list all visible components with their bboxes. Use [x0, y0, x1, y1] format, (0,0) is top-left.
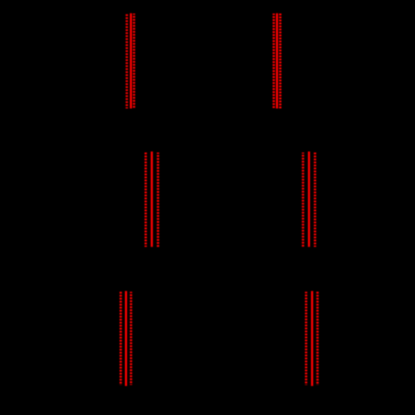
wire W4 (track segment, solid centre line) [308, 152, 310, 247]
W6 right clearance outline (dotted) [316, 292, 318, 385]
W4 right clearance outline (dotted) [314, 153, 316, 247]
wire W3 (track segment, solid centre line) [151, 152, 153, 247]
wire W1 (track segment, solid centre line) [130, 13, 132, 108]
W1 left clearance outline (dotted) [126, 14, 128, 108]
wire W5 (track segment, solid centre line) [125, 291, 127, 386]
W4 left clearance outline (dotted) [302, 153, 304, 247]
W2 right clearance outline (dotted) [279, 14, 281, 109]
W5 right clearance outline (dotted) [130, 292, 132, 385]
wire W6 (track segment, solid centre line) [311, 291, 313, 386]
W3 left clearance outline (dotted) [145, 153, 147, 247]
W3 right clearance outline (dotted) [157, 153, 159, 247]
W2 left clearance outline (dotted) [273, 14, 275, 109]
wire W2 (track segment, solid centre line) [276, 13, 278, 108]
W5 left clearance outline (dotted) [120, 292, 122, 385]
W1 right clearance outline (dotted) [133, 14, 135, 109]
W6 left clearance outline (dotted) [305, 292, 307, 385]
